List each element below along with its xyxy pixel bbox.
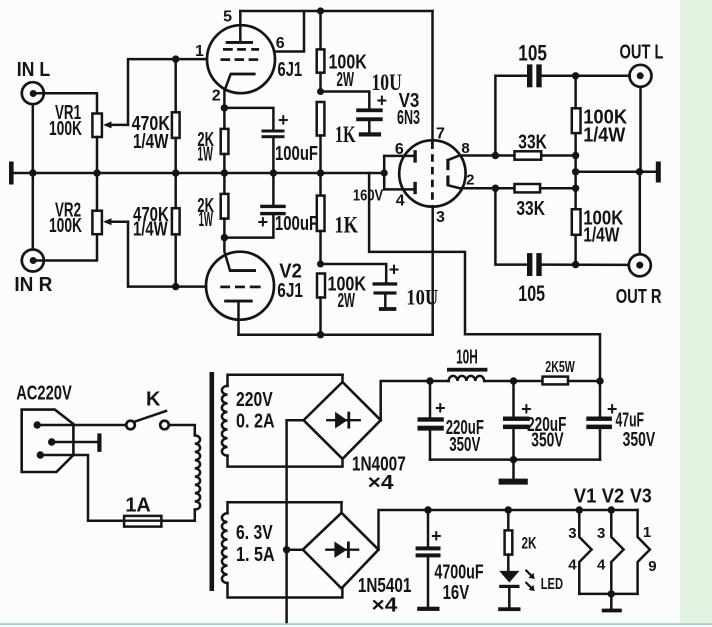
wire plug earth (52, 441, 98, 444)
svg-text:10U: 10U (372, 70, 403, 95)
wire V3 pin2 out (462, 187, 515, 190)
svg-text:6J1: 6J1 (278, 59, 303, 81)
wire bridge2 plus heater bus (379, 510, 638, 550)
bridge rectifier 1N4007 (304, 382, 406, 494)
node IN L ground (29, 169, 36, 176)
node OUT L (572, 72, 579, 79)
RCA jack OUT R (616, 172, 662, 308)
node rail decouple lower (317, 261, 324, 268)
wire switch to transformer (169, 425, 195, 435)
svg-text:350V: 350V (449, 434, 480, 456)
node 105 lower left (492, 185, 499, 192)
svg-text:3: 3 (597, 525, 605, 542)
ground LED (498, 607, 520, 611)
svg-text:1K: 1K (334, 213, 358, 238)
chassis ground right (656, 162, 661, 183)
svg-text:1/4W: 1/4W (583, 225, 619, 247)
AC plug AC220V (16, 382, 73, 472)
wire VR1 wiper to V1 grid (128, 59, 207, 125)
resistor 33K lower (515, 184, 576, 220)
resistor 100K 1/4W out lower (572, 208, 624, 247)
potentiometer VR2 100K (49, 200, 128, 238)
capacitor 220uF 350V first (418, 381, 485, 460)
resistor 1K upper (317, 102, 356, 173)
node ground mid (572, 168, 579, 175)
node 33K lower right (572, 185, 579, 192)
svg-text:105: 105 (518, 41, 547, 66)
svg-text:100K: 100K (49, 215, 82, 237)
svg-text:+: + (278, 110, 289, 130)
chassis ground plug (97, 433, 101, 452)
capacitor 47uF 350V (586, 381, 655, 460)
chassis ground left (9, 162, 14, 185)
svg-text:V1: V1 (574, 486, 597, 508)
node 470K top (172, 55, 179, 62)
capacitor 220uF 350V second (503, 381, 566, 460)
node rail bus (317, 169, 324, 176)
heater V2 (597, 506, 624, 594)
svg-text:+: + (431, 526, 442, 546)
RCA jack IN L (17, 59, 51, 104)
svg-text:4: 4 (396, 193, 405, 210)
svg-text:3: 3 (568, 525, 576, 542)
wire IN R to VR2 (33, 173, 97, 261)
node filter 2 (510, 377, 517, 384)
svg-text:AC220V: AC220V (16, 382, 72, 404)
wire V3 pin7 plate (431, 11, 434, 141)
wire V3 pin3 (431, 207, 434, 335)
node 470K bus (172, 169, 179, 176)
svg-text:IN L: IN L (17, 59, 51, 81)
svg-text:1K: 1K (335, 122, 356, 147)
resistor 33K upper (515, 131, 576, 159)
node 100uF bus (270, 169, 277, 176)
svg-text:100K: 100K (49, 118, 82, 140)
resistor 100K 1/4W out upper (572, 107, 628, 147)
potentiometer VR1 100K (49, 102, 128, 140)
resistor 2K (505, 510, 537, 571)
resistor 2K 1W lower (197, 173, 228, 238)
wire filter caps bottom (430, 458, 600, 461)
inductor 10H (447, 346, 487, 381)
svg-text:1W: 1W (197, 144, 213, 166)
svg-text:220V: 220V (236, 389, 273, 411)
capacitor 10U lower (373, 259, 439, 309)
svg-text:0. 2A: 0. 2A (236, 411, 275, 433)
node 33K upper right (572, 152, 579, 159)
ground 4700uF (417, 607, 439, 611)
wire 105 upper to OUT L (542, 75, 630, 78)
wire to 105 upper (495, 76, 527, 156)
svg-text:+: + (435, 398, 446, 418)
wire heater bottom (579, 593, 637, 596)
svg-text:1: 1 (643, 524, 651, 541)
svg-text:2K5W: 2K5W (545, 359, 575, 376)
tube V1 6J1 (195, 9, 302, 108)
svg-text:6J1: 6J1 (277, 280, 303, 302)
node 4700uF (424, 506, 431, 513)
ground filter (499, 460, 528, 485)
node V3 grid bias (381, 169, 388, 176)
transformer core (210, 372, 215, 591)
svg-text:350V: 350V (531, 429, 564, 451)
wire plug live (37, 424, 126, 427)
node ground jacks (636, 168, 643, 175)
wire VR2 wiper to V2 grid (128, 222, 206, 287)
svg-text:LED: LED (541, 576, 563, 593)
svg-text:6: 6 (276, 35, 285, 52)
ground heater (602, 594, 622, 612)
node 105 upper left (492, 152, 499, 159)
svg-text:OUT R: OUT R (616, 286, 662, 308)
svg-text:160V: 160V (353, 188, 384, 205)
resistor 1K lower (317, 173, 358, 264)
wire B+ feed jog (369, 173, 600, 381)
wire to 105 lower (495, 188, 527, 264)
svg-text:16V: 16V (443, 582, 470, 604)
tube V3 6N3 (395, 90, 475, 226)
svg-text:3: 3 (436, 209, 445, 226)
resistor 470K 1/4W upper (132, 59, 180, 173)
svg-text:2W: 2W (337, 69, 355, 91)
ground 10U lower (379, 307, 396, 311)
svg-text:9: 9 (648, 558, 656, 575)
svg-text:2: 2 (466, 172, 474, 189)
wire V1 pin6 strap (274, 11, 304, 52)
capacitor 10U upper (356, 70, 402, 132)
svg-text:V2: V2 (602, 486, 625, 508)
node V1 cathode (221, 104, 228, 111)
node filter 3 (596, 377, 603, 384)
capacitor 105 upper (518, 41, 547, 88)
bridge rectifier 1N5401 (303, 513, 412, 617)
node rail bottom (317, 331, 324, 338)
labels V1 V2 V3 (574, 486, 652, 508)
node V2 cathode (221, 234, 228, 241)
transformer secondary 6.3V winding (222, 502, 343, 597)
resistor 2K 1W upper (197, 108, 228, 173)
LED (499, 570, 563, 608)
svg-text:1/4W: 1/4W (133, 219, 168, 241)
svg-text:6N3: 6N3 (397, 107, 420, 129)
heater V3 (638, 510, 657, 594)
capacitor 105 lower (518, 253, 545, 306)
node 2K LED (505, 506, 512, 513)
svg-text:4700uF: 4700uF (434, 561, 483, 583)
node OUT R (572, 261, 579, 268)
wire fuse to plug (43, 455, 124, 521)
svg-text:1W: 1W (199, 209, 213, 231)
wire V2 plate bottom bus (239, 333, 433, 336)
wire 105 lower to OUT R (542, 263, 629, 266)
wire bridge1 plus (381, 381, 449, 420)
svg-text:4: 4 (568, 557, 577, 574)
svg-text:6: 6 (395, 141, 404, 158)
node top rail (317, 7, 324, 14)
svg-text:×4: ×4 (368, 472, 395, 494)
svg-text:6. 3V: 6. 3V (236, 522, 273, 544)
heater V1 (568, 506, 591, 594)
wire primary return (161, 519, 194, 522)
node filter ground (510, 456, 517, 463)
wire V3 grid bracket (384, 156, 413, 190)
wire filter mid (484, 380, 542, 383)
capacitor 100uF lower (224, 173, 318, 238)
node bridge2 minus (283, 546, 290, 553)
svg-text:2W: 2W (338, 290, 355, 312)
node filter 1 (426, 377, 433, 384)
node VR bus (93, 169, 100, 176)
wire V3 pin8 out (460, 154, 515, 157)
svg-text:105: 105 (518, 281, 545, 306)
wire to 10U lower (321, 264, 387, 282)
transformer secondary 220V winding (222, 375, 343, 467)
capacitor 100uF upper (262, 110, 319, 173)
svg-text:+: + (389, 259, 400, 279)
svg-text:IN R: IN R (14, 274, 53, 296)
svg-text:10H: 10H (456, 346, 478, 368)
svg-text:350V: 350V (623, 429, 656, 451)
svg-text:+: + (258, 212, 269, 232)
resistor 2K5W (543, 359, 601, 385)
wire cathode to cap (224, 108, 273, 130)
resistor 100K 2W lower (317, 274, 366, 335)
svg-text:V3: V3 (630, 486, 652, 508)
wire VR2 top to bus (96, 173, 99, 211)
RCA jack IN R (14, 250, 53, 297)
svg-text:4: 4 (597, 557, 606, 574)
svg-text:33K: 33K (516, 198, 545, 220)
wire bridge2 minus (287, 548, 303, 551)
RCA jack OUT L (620, 42, 664, 172)
wire B+ top rail (240, 10, 432, 13)
wire IN L to VR1 (33, 93, 97, 173)
resistor 470K 1/4W lower (133, 173, 180, 287)
wire bridge1 minus (287, 420, 304, 622)
label 160V (353, 188, 384, 205)
node heater ground (608, 590, 615, 597)
resistor 100K 2W upper (317, 11, 368, 92)
svg-text:5: 5 (223, 9, 232, 26)
svg-text:K: K (146, 389, 161, 411)
ground 10U upper (359, 132, 381, 136)
node 470K lower bottom (172, 283, 179, 290)
tube V2 6J1 (206, 238, 303, 335)
svg-text:7: 7 (436, 126, 445, 143)
svg-text:2K: 2K (522, 534, 537, 553)
switch K (126, 389, 169, 430)
svg-text:×4: ×4 (372, 594, 399, 616)
wire output mid column (574, 76, 577, 265)
svg-text:1. 5A: 1. 5A (236, 544, 275, 566)
node rail decouple upper (317, 88, 324, 95)
wire ground bus y=173 (14, 172, 385, 175)
wire VR1 bottom to bus (96, 137, 99, 173)
svg-text:OUT L: OUT L (620, 42, 664, 64)
node 2K bus (221, 169, 228, 176)
wire to 10U upper (321, 92, 370, 109)
transformer primary coil (195, 435, 200, 520)
svg-text:33K: 33K (518, 131, 547, 153)
fuse 1A (124, 494, 161, 526)
capacitor 4700uF 16V (416, 510, 484, 607)
svg-text:2: 2 (212, 88, 221, 105)
svg-text:1/4W: 1/4W (583, 125, 625, 147)
wire output ground (576, 171, 656, 174)
svg-text:1/4W: 1/4W (133, 131, 168, 153)
svg-text:100uF: 100uF (275, 213, 318, 235)
svg-text:1A: 1A (125, 494, 150, 516)
svg-text:100uF: 100uF (275, 143, 318, 165)
svg-text:1: 1 (195, 43, 204, 60)
